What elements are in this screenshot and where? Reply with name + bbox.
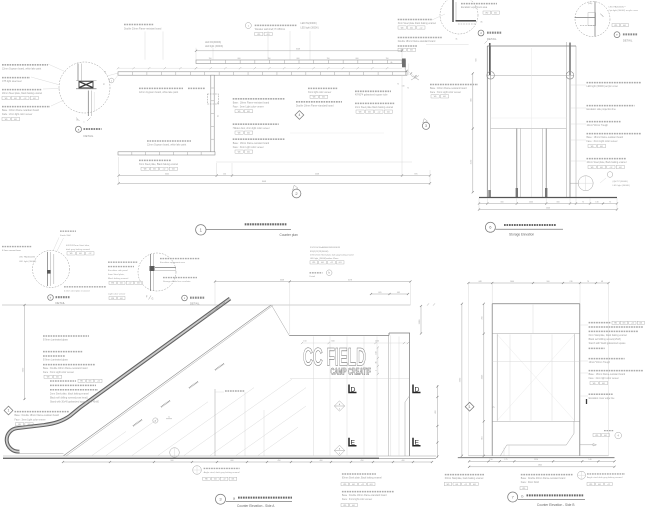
section circle 2	[292, 185, 301, 198]
small note left margin mid sheet	[2, 247, 32, 252]
escalator rotated step labels	[133, 303, 225, 426]
escalator base line under loop	[18, 452, 64, 454]
svg-text:75: 75	[582, 201, 584, 203]
svg-text:+12: +12	[97, 381, 100, 383]
section diamond 1 side A	[4, 406, 13, 415]
svg-text:001: 001	[267, 34, 270, 36]
svg-text:+12: +12	[607, 484, 610, 486]
escalator soffit double line	[64, 305, 273, 456]
svg-text:Stand with 30x40 galvanized sq: Stand with 30x40 galvanized square tube …	[50, 400, 100, 403]
svg-text:75: 75	[397, 84, 399, 86]
svg-text:Double 20mm Flame-resistant bo: Double 20mm Flame-resistant board	[124, 28, 162, 31]
svg-text:Base : 18mm Flame retardant bo: Base : 18mm Flame retardant board	[2, 109, 40, 112]
svg-text:001: 001	[387, 111, 390, 113]
svg-text:Counter Elevation - Side A: Counter Elevation - Side A	[237, 504, 275, 508]
counter plan title	[196, 224, 298, 237]
svg-text:1100: 1100	[375, 341, 379, 343]
svg-text:001: 001	[120, 298, 123, 300]
angle steel note with leader circle	[193, 466, 240, 481]
svg-text:6.5mm cement base: 6.5mm cement base	[2, 249, 22, 252]
svg-text:001: 001	[370, 484, 373, 486]
side A right vertical dim	[419, 305, 422, 335]
svg-text:3008: 3008	[280, 279, 284, 281]
plan notes right of vertical wall	[233, 99, 285, 154]
svg-text:12mm Gypsum board, white lake: 12mm Gypsum board, white lake paint	[139, 91, 179, 94]
svg-text:+12: +12	[464, 484, 467, 486]
svg-text:450: 450	[278, 460, 281, 462]
svg-text:130: 130	[595, 201, 598, 203]
escalator handrail band	[7, 299, 230, 452]
svg-text:8448: 8448	[262, 181, 266, 183]
svg-text:+12: +12	[23, 98, 26, 100]
svg-text:+12: +12	[609, 167, 612, 169]
svg-text:001: 001	[352, 484, 355, 486]
svg-text:b: b	[522, 495, 524, 499]
CC FIELD logo	[303, 343, 371, 376]
plan interior notes	[139, 88, 205, 170]
section diamond 4	[295, 111, 304, 120]
svg-text:LED light (3000K): LED light (3000K)	[19, 260, 37, 263]
svg-text:400: 400	[402, 460, 405, 462]
logo dimension marks	[301, 341, 409, 376]
side A left dimension column	[22, 304, 25, 400]
svg-text:4: 4	[339, 409, 340, 411]
svg-text:48: 48	[601, 281, 603, 283]
svg-text:150: 150	[209, 58, 212, 60]
storage left vertical dimension	[475, 57, 477, 61]
svg-text:5508: 5508	[315, 173, 319, 175]
svg-text:n: n	[84, 121, 85, 123]
svg-text:001: 001	[33, 98, 36, 100]
svg-text:Opt-light (3000K) acrylic cove: Opt-light (3000K) acrylic cover	[609, 9, 639, 12]
svg-text:0k: 0k	[104, 83, 106, 85]
svg-text:Double 18mm Flame-standard boa: Double 18mm Flame-standard board	[398, 40, 436, 43]
svg-text:001: 001	[28, 424, 31, 426]
svg-text:150: 150	[223, 173, 226, 175]
svg-text:Face : 3mm light color veneer: Face : 3mm light color veneer	[342, 498, 372, 501]
svg-text:001: 001	[89, 381, 92, 383]
plan faint counter front line	[216, 161, 412, 163]
svg-text:Escalator side projection line: Escalator side projection line	[587, 108, 617, 111]
svg-text:10mm*10mm Trough: 10mm*10mm Trough	[589, 361, 611, 364]
svg-text:2OGC/5mm Steel plate, dark gra: 2OGC/5mm Steel plate, dark gray baking e…	[310, 254, 354, 257]
svg-text:+12: +12	[88, 253, 91, 255]
svg-text:0k: 0k	[218, 115, 220, 117]
svg-text:+12: +12	[162, 169, 165, 171]
svg-text:001: 001	[137, 283, 140, 285]
svg-text:001: 001	[153, 169, 156, 171]
svg-text:Wooden wall shelf, H=450mm: Wooden wall shelf, H=450mm	[255, 29, 286, 31]
svg-text:2mm Steel plate black baking e: 2mm Steel plate black baking enamel	[355, 106, 394, 109]
detail circle B (dashed callout)	[33, 251, 70, 288]
svg-text:+12: +12	[631, 323, 634, 325]
svg-text:140: 140	[588, 459, 591, 461]
plan notes upper right cluster	[290, 88, 395, 133]
svg-text:001: 001	[14, 119, 17, 121]
svg-text:001: 001	[247, 132, 250, 134]
svg-text:Face : 3mm Light color veneer: Face : 3mm Light color veneer	[430, 91, 461, 94]
svg-text:001: 001	[120, 283, 123, 285]
svg-text:001: 001	[602, 383, 605, 385]
ground marker circle side A	[170, 448, 180, 458]
side B note leaders	[580, 325, 588, 396]
svg-text:150: 150	[303, 341, 306, 343]
side A top dimension line	[214, 279, 412, 334]
storage interior faint lines	[491, 48, 567, 128]
svg-text:+12: +12	[128, 283, 131, 285]
plan vertical wall	[207, 75, 219, 152]
svg-text:Face : 3mm Light color veneer: Face : 3mm Light color veneer	[233, 146, 264, 149]
svg-text:1510: 1510	[534, 459, 538, 461]
svg-text:001: 001	[172, 169, 175, 171]
svg-text:4.5mm steel plate recessed: 4.5mm steel plate recessed	[64, 290, 90, 293]
detail circle A (dashed callout)	[59, 62, 122, 123]
svg-text:60mm Steel plate, Back baking: 60mm Steel plate, Back baking enamel	[342, 477, 382, 480]
svg-text:1: 1	[469, 405, 471, 409]
svg-text:001: 001	[600, 146, 603, 148]
plan bottom dimension lines	[118, 75, 432, 185]
svg-text:6mm Stainplate, black baking e: 6mm Stainplate, black baking enamel	[589, 334, 628, 337]
svg-text:Fade : 2mm light color veneer: Fade : 2mm light color veneer	[2, 113, 33, 116]
svg-text:75: 75	[609, 201, 611, 203]
svg-text:465: 465	[397, 292, 400, 294]
svg-text:G: G	[152, 297, 154, 300]
plan top dimension 3248	[195, 48, 403, 60]
side B notes right column block3	[589, 371, 644, 385]
mounting bracket E right	[413, 438, 421, 447]
svg-text:300: 300	[500, 201, 503, 203]
svg-text:600: 600	[331, 341, 334, 343]
svg-text:DETAIL: DETAIL	[487, 37, 497, 41]
leader lines from top notes to wall	[145, 31, 310, 60]
notes left of detail D	[398, 14, 469, 52]
detail A label	[76, 126, 102, 138]
svg-text:Base : Double 20mm Flame-resis: Base : Double 20mm Flame-resistant board	[521, 477, 566, 480]
svg-text:0k: 0k	[391, 62, 393, 64]
svg-text:30: 30	[105, 71, 107, 73]
svg-text:450: 450	[361, 460, 364, 462]
svg-text:(24h): (24h)	[588, 3, 593, 5]
notes around detail B	[19, 231, 106, 292]
svg-text:150: 150	[268, 58, 271, 60]
svg-text:448: 448	[478, 281, 481, 283]
svg-text:40*60*4 galvanized square tube: 40*60*4 galvanized square tube	[355, 94, 388, 97]
svg-text:+12: +12	[361, 484, 364, 486]
plan lower wall	[118, 72, 407, 75]
svg-text:a: a	[233, 497, 235, 501]
storage elevation walls	[487, 42, 576, 198]
svg-text:E-9mm Laminated glass: E-9mm Laminated glass	[43, 359, 69, 362]
svg-text:Base : 18mm Flame-resistant bo: Base : 18mm Flame-resistant board	[589, 373, 626, 376]
svg-text:Base : Double 18mm Flame-stand: Base : Double 18mm Flame-standard board	[342, 494, 387, 497]
svg-text:Storage Elevation: Storage Elevation	[509, 232, 534, 236]
side A bottom dimension row	[62, 460, 433, 463]
svg-text:Escalator equipment area: Escalator equipment area	[461, 6, 488, 9]
keynote block above detail b ref	[310, 246, 354, 260]
svg-text:150: 150	[327, 58, 330, 60]
escalator apex to counter corner line	[272, 305, 290, 335]
svg-text:0k: 0k	[218, 102, 220, 104]
svg-text:3mm Steel plate black baking e: 3mm Steel plate black baking enamel	[398, 22, 437, 25]
svg-text:DETAIL: DETAIL	[84, 134, 94, 138]
svg-text:1: 1	[8, 409, 10, 413]
escalator step hatch	[92, 379, 306, 455]
svg-text:4: 4	[298, 113, 300, 117]
side B notes right column block1	[589, 321, 645, 348]
side A ground line	[3, 456, 436, 458]
side A notes left column lower	[50, 379, 102, 403]
svg-text:Detail: Detail	[310, 275, 316, 278]
svg-text:12mm Gypsum board, white lake: 12mm Gypsum board, white lake paint	[2, 68, 42, 71]
side A notes left column upper	[43, 336, 89, 342]
svg-text:76: 76	[587, 281, 589, 283]
svg-text:2046: 2046	[546, 207, 550, 209]
svg-text:Double 18mm Flame-standard boa: Double 18mm Flame-standard board	[296, 104, 334, 107]
notes around detail C	[108, 259, 200, 300]
section marker small c on escalator	[153, 415, 172, 423]
svg-text:001: 001	[443, 96, 446, 98]
svg-text:746: 746	[569, 281, 572, 283]
svg-text:150: 150	[386, 58, 389, 60]
reference diamond upper	[334, 401, 344, 411]
svg-text:001: 001	[247, 111, 250, 113]
svg-text:DETAIL: DETAIL	[56, 301, 66, 305]
side B outline	[492, 304, 580, 456]
svg-text:3mm light color veneer: 3mm light color veneer	[308, 91, 331, 94]
plan lower wall left end mark	[109, 75, 118, 83]
storage right leader with lamp circle	[570, 172, 630, 191]
svg-text:LED light (3000K): LED light (3000K)	[613, 184, 631, 187]
svg-text:2845: 2845	[538, 465, 542, 467]
svg-text:3178: 3178	[348, 279, 352, 281]
svg-text:D: D	[351, 386, 356, 393]
storage left vertical dim line	[471, 72, 474, 193]
side B title	[508, 492, 585, 507]
svg-text:001: 001	[214, 479, 217, 481]
svg-text:001: 001	[410, 50, 413, 52]
svg-text:300: 300	[556, 201, 559, 203]
storage door	[488, 129, 547, 198]
svg-text:E: E	[351, 440, 356, 447]
svg-text:001: 001	[604, 435, 607, 437]
counter right edge verticals	[389, 333, 410, 456]
svg-text:+12: +12	[330, 262, 333, 264]
svg-text:Black self drilling screws(m5x: Black self drilling screws(m5x8)	[589, 338, 621, 341]
storage ceiling mounting targets	[485, 41, 574, 80]
side B right arrow and tag	[580, 431, 622, 446]
svg-text:LED light (3000K): LED light (3000K)	[205, 45, 223, 48]
inter-view vertical dimension	[435, 385, 438, 458]
svg-text:001: 001	[619, 167, 622, 169]
svg-text:001: 001	[231, 479, 234, 481]
svg-text:001: 001	[600, 167, 603, 169]
svg-text:CT5 light steel keel: CT5 light steel keel	[2, 80, 22, 83]
svg-text:2: 2	[376, 370, 378, 371]
svg-text:695: 695	[414, 173, 417, 175]
svg-text:0/k: 0/k	[480, 22, 482, 24]
svg-text:300: 300	[546, 281, 549, 283]
svg-text:LED PA(3000W): LED PA(3000W)	[19, 256, 35, 259]
svg-text:180: 180	[376, 351, 378, 354]
svg-text:600: 600	[356, 58, 359, 60]
svg-text:001: 001	[639, 323, 642, 325]
svg-text:+12: +12	[223, 479, 226, 481]
svg-text:Base : 18mm Flame-resistant bo: Base : 18mm Flame-resistant board	[430, 87, 467, 90]
svg-text:Escalator cover edge line: Escalator cover edge line	[589, 397, 616, 400]
side B faint interior	[492, 305, 580, 421]
svg-text:Escalator equipment area: Escalator equipment area	[160, 261, 186, 264]
side B bottom notes right	[578, 471, 626, 486]
side B notes right column block4	[587, 394, 616, 404]
side B ground line	[458, 456, 615, 458]
detail C label	[146, 295, 205, 306]
svg-text:60mm Stairplate, back baking e: 60mm Stairplate, back baking enamel	[445, 477, 484, 480]
side B bottom notes left	[444, 475, 485, 486]
storage shelf line	[491, 128, 567, 130]
svg-text:400: 400	[320, 460, 323, 462]
svg-text:Black self drilling screws(cro: Black self drilling screws(cross head)	[50, 396, 88, 399]
svg-text:+12: +12	[377, 111, 380, 113]
svg-text:10mm*10mm Trough: 10mm*10mm Trough	[587, 124, 609, 127]
svg-text:600: 600	[231, 460, 234, 462]
svg-text:(4)&T P(3000K): (4)&T P(3000K)	[613, 181, 629, 183]
svg-text:001: 001	[321, 262, 324, 264]
svg-text:Base : 18mm Flame-resistant bo: Base : 18mm Flame-resistant board	[587, 136, 624, 139]
svg-text:Face : 3mm Light color veneer: Face : 3mm Light color veneer	[233, 105, 264, 108]
section diamond 1 side B	[465, 402, 495, 411]
svg-text:Base : 18mm Flame-resistant bo: Base : 18mm Flame-resistant board	[233, 142, 270, 145]
mounting bracket D left	[349, 385, 357, 394]
svg-text:Counter Elevation - Side B: Counter Elevation - Side B	[537, 503, 575, 507]
plan mid dim row between walls	[117, 67, 402, 69]
svg-text:12mm Gypsum board, white lake: 12mm Gypsum board, white lake paint	[147, 144, 187, 147]
notes above detail E	[609, 5, 639, 27]
svg-text:Finish Wall: Finish Wall	[60, 235, 71, 237]
side A bottom centre notes upper	[341, 474, 382, 486]
svg-text:dark gray baking enamel: dark gray baking enamel	[66, 248, 90, 251]
finish line vertical with label	[215, 389, 264, 456]
plan bottom wall	[118, 152, 215, 155]
svg-text:001: 001	[79, 253, 82, 255]
svg-text:6mm Steel plate,: 6mm Steel plate,	[108, 273, 125, 276]
storage notes right column	[571, 83, 642, 169]
svg-text:40X20X2mm Steel tube,: 40X20X2mm Steel tube,	[66, 244, 90, 247]
plan upper wall	[196, 60, 402, 64]
counter top line side A	[289, 333, 410, 335]
svg-text:E: E	[415, 440, 420, 447]
svg-text:3mm Steel plate, Black baking: 3mm Steel plate, Black baking enamel	[139, 163, 179, 166]
storage elevation title	[485, 222, 563, 236]
svg-text:LED light (3000K): LED light (3000K)	[301, 26, 319, 29]
svg-text:Hidden door, 2mm light color v: Hidden door, 2mm light color veneer	[233, 127, 270, 130]
svg-text:LED PA(3000K)**: LED PA(3000K)**	[609, 5, 626, 8]
mounting bracket D right	[413, 385, 421, 394]
svg-text:45: 45	[376, 361, 378, 363]
svg-text:Base : Double 18mm Flame-resis: Base : Double 18mm Flame-resistant board	[15, 414, 60, 417]
svg-text:10mm Steel plate, Back baking: 10mm Steel plate, Back baking enamel	[587, 161, 627, 164]
svg-text:CAMP CREATIF: CAMP CREATIF	[331, 367, 372, 377]
svg-text:Light color veneer: Light color veneer	[108, 292, 126, 295]
svg-text:E-9mm Laminated glass: E-9mm Laminated glass	[43, 339, 69, 342]
svg-text:2000: 2000	[529, 201, 533, 203]
side B toe kick profile	[500, 421, 574, 456]
svg-text:Face : 3mm Light color veneer: Face : 3mm Light color veneer	[43, 371, 74, 374]
notes right of detail D	[461, 4, 499, 15]
svg-text:3005: 3005	[165, 173, 169, 175]
plan notes left column	[2, 64, 66, 121]
svg-text:Base : 18mm Flame-resistant bo: Base : 18mm Flame-resistant board	[233, 101, 270, 104]
detail circle D (dashed callout)	[440, 0, 483, 41]
section circle 3	[422, 119, 429, 130]
svg-text:001: 001	[494, 12, 497, 14]
svg-text:001: 001	[247, 151, 250, 153]
storage bottom dimensions	[478, 198, 618, 211]
svg-text:001: 001	[623, 323, 626, 325]
svg-text:1600: 1600	[510, 281, 514, 283]
side B notes right column block2	[589, 359, 625, 365]
svg-text:826(2(25)7R(3000K): 826(2(25)7R(3000K)	[310, 251, 329, 253]
plan wall right-end junction	[391, 59, 419, 90]
mounting bracket E left	[349, 438, 357, 447]
svg-text:Counter plan: Counter plan	[280, 233, 298, 237]
side A notes at diamond	[15, 412, 70, 426]
svg-text:Face : 3mm Light color veneer: Face : 3mm Light color veneer	[15, 418, 46, 421]
detail E label	[614, 32, 638, 43]
svg-text:001: 001	[322, 97, 325, 99]
svg-text:150: 150	[489, 459, 492, 461]
reference diamond lower	[334, 445, 344, 455]
svg-text:0k: 0k	[456, 39, 458, 41]
svg-text:001: 001	[623, 25, 626, 27]
storage ground line	[479, 197, 617, 199]
storage notes left column	[430, 85, 478, 99]
svg-text:Face : Floor finish: Face : Floor finish	[521, 481, 540, 484]
svg-text:001: 001	[410, 27, 413, 29]
detail B label	[48, 295, 70, 306]
side B left vertical dims	[460, 303, 485, 457]
svg-text:20mm Steel plate, black baking: 20mm Steel plate, black baking enamel	[2, 92, 43, 95]
svg-text:001: 001	[455, 484, 458, 486]
svg-text:600: 600	[238, 58, 241, 60]
svg-text:175: 175	[504, 459, 507, 461]
svg-text:4: 4	[339, 453, 340, 455]
side B bottom dimensions	[468, 459, 616, 468]
svg-text:3248: 3248	[296, 49, 300, 51]
svg-text:Black baking enamel: Black baking enamel	[108, 278, 129, 280]
side A bottom centre notes lower	[341, 492, 394, 507]
reference note circle detail b small	[310, 261, 345, 278]
side A notes left column mid	[43, 352, 95, 379]
svg-text:3/1/2OGC/8sA4B6003030303018: 3/1/2OGC/8sA4B6003030303018	[310, 246, 341, 249]
svg-text:LED light (3000K) acrylic cove: LED light (3000K) acrylic cover	[587, 85, 619, 88]
svg-text:001: 001	[368, 111, 371, 113]
svg-text:001: 001	[14, 98, 17, 100]
detail circle C (dashed callout)	[138, 253, 176, 291]
plan notes top row	[124, 22, 319, 48]
svg-text:Face : 2mm light color veneer: Face : 2mm light color veneer	[589, 377, 619, 380]
wooden shelf note with small circle	[245, 23, 296, 36]
side A title	[216, 494, 293, 508]
svg-text:Starch with Weldi galvanized s: Starch with Weldi galvanized square	[589, 342, 627, 345]
svg-text:D: D	[415, 386, 420, 393]
svg-text:2mm Steel plate, black baking: 2mm Steel plate, black baking enamel	[50, 392, 89, 395]
svg-text:Escalator side panel: Escalator side panel	[108, 269, 128, 272]
svg-text:900: 900	[171, 460, 174, 462]
svg-text:001: 001	[56, 377, 59, 379]
svg-text:DETAIL: DETAIL	[623, 39, 633, 43]
svg-text:75: 75	[407, 88, 409, 90]
svg-text:001: 001	[473, 484, 476, 486]
